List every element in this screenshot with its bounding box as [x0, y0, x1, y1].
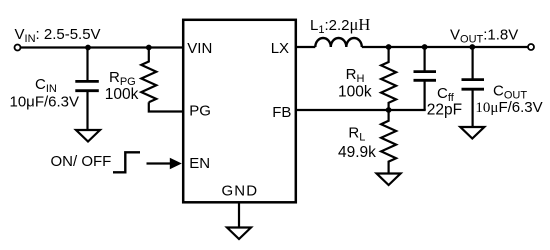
- label RL value 49.9k: [338, 144, 376, 161]
- resistor R_L: [381, 110, 396, 174]
- label C_OUT: [493, 83, 527, 102]
- svg-text:100k: 100k: [105, 86, 139, 103]
- ground COUT: [460, 127, 484, 139]
- label RH value 100k: [338, 83, 372, 100]
- svg-text:RL: RL: [348, 125, 365, 144]
- ground GND: [227, 228, 251, 240]
- pin label VIN: [187, 40, 212, 57]
- signal rising-edge symbol: [113, 152, 140, 172]
- svg-text:VIN: VIN: [187, 40, 212, 57]
- svg-text:PG: PG: [189, 103, 211, 120]
- svg-text:VOUT:1.8V: VOUT:1.8V: [450, 26, 518, 45]
- label C_ff: [437, 85, 455, 104]
- svg-text:FB: FB: [272, 104, 291, 121]
- svg-text:VIN: 2.5-5.5V: VIN: 2.5-5.5V: [15, 26, 101, 45]
- svg-text:49.9k: 49.9k: [338, 144, 376, 161]
- svg-text:LX: LX: [271, 40, 289, 57]
- svg-text:GND: GND: [222, 183, 259, 200]
- ground RL: [377, 174, 401, 186]
- junction COUT top: [469, 44, 475, 50]
- node VOUT terminal: [528, 44, 534, 50]
- junction RPG tap: [146, 45, 152, 51]
- pin label GND: [222, 183, 259, 200]
- wire LX lead: [296, 46, 315, 48]
- label Cff value 22pF: [427, 102, 462, 119]
- label CIN value 10uF/6.3V: [10, 94, 80, 111]
- pin label EN: [189, 155, 210, 172]
- svg-text:10μF/6.3V: 10μF/6.3V: [10, 94, 80, 111]
- resistor R_PG: [141, 48, 156, 103]
- label C_IN: [35, 76, 57, 95]
- node VIN input terminal: [15, 45, 21, 51]
- label VOUT: 1.8V: [450, 26, 518, 45]
- junction RH top: [386, 44, 392, 50]
- label VIN: 2.5-5.5V: [15, 26, 101, 45]
- wire Cff lower lead: [424, 81, 426, 110]
- arrow into EN: [147, 158, 182, 170]
- svg-text:EN: EN: [189, 155, 210, 172]
- capacitor C_OUT: [462, 80, 485, 90]
- label L1: 2.2uH: [310, 15, 370, 36]
- wire PG lead: [149, 102, 183, 111]
- svg-text:CIN: CIN: [35, 76, 57, 95]
- wire CIN upper lead: [86, 48, 88, 81]
- capacitor C_IN: [75, 81, 99, 90]
- label R_H: [346, 66, 365, 85]
- label COUT value 10uF/6.3V: [475, 99, 542, 116]
- svg-text:22pF: 22pF: [427, 102, 462, 119]
- inductor L1: [315, 38, 362, 47]
- label ON/ OFF: [51, 153, 112, 170]
- wire CIN lower lead: [86, 92, 88, 130]
- junction CIN tap: [85, 45, 91, 51]
- pin label PG: [189, 103, 211, 120]
- label R_PG: [109, 69, 136, 88]
- wire Cff upper lead: [424, 47, 426, 71]
- wire COUT lower lead: [472, 90, 474, 127]
- resistor R_H: [381, 47, 396, 110]
- svg-text:100k: 100k: [338, 83, 372, 100]
- wire COUT upper lead: [472, 47, 474, 79]
- capacitor C_ff: [414, 72, 437, 81]
- junction Cff top: [422, 44, 428, 50]
- wire output rail: [362, 46, 528, 48]
- svg-text:L1:2.2μH: L1:2.2μH: [310, 15, 370, 36]
- junction FB node: [386, 107, 392, 113]
- pin label FB: [272, 104, 291, 121]
- wire FB rail: [296, 109, 426, 111]
- svg-text:10μF/6.3V: 10μF/6.3V: [475, 99, 542, 116]
- label R_L: [348, 125, 365, 144]
- ground CIN: [76, 130, 100, 142]
- wire input rail: [21, 46, 183, 48]
- label RPG value 100k: [105, 86, 139, 103]
- svg-text:ON/ OFF: ON/ OFF: [51, 153, 112, 170]
- pin label LX: [271, 40, 289, 57]
- wire GND lead: [238, 202, 240, 228]
- IC U1 body: [183, 20, 296, 203]
- svg-text:RH: RH: [346, 66, 365, 85]
